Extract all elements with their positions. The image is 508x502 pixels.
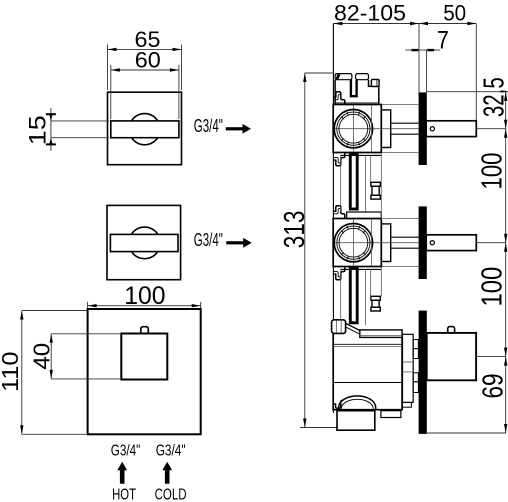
- svg-text:100: 100: [477, 267, 508, 307]
- svg-text:G3/4": G3/4": [111, 442, 141, 459]
- svg-text:COLD: COLD: [155, 486, 187, 502]
- svg-text:313: 313: [279, 211, 311, 249]
- svg-text:40: 40: [28, 343, 54, 370]
- svg-text:HOT: HOT: [112, 486, 136, 502]
- svg-text:60: 60: [135, 48, 161, 73]
- svg-text:69: 69: [478, 373, 508, 398]
- svg-text:7: 7: [437, 27, 449, 55]
- svg-text:G3/4": G3/4": [194, 229, 223, 250]
- svg-text:32,5: 32,5: [479, 77, 508, 117]
- svg-text:100: 100: [477, 153, 508, 190]
- svg-text:100: 100: [124, 282, 165, 310]
- svg-text:82-105: 82-105: [334, 1, 406, 26]
- svg-text:G3/4": G3/4": [194, 115, 223, 136]
- svg-text:50: 50: [443, 1, 466, 26]
- svg-text:110: 110: [0, 352, 23, 393]
- svg-text:15: 15: [25, 115, 52, 145]
- svg-text:G3/4": G3/4": [156, 442, 186, 459]
